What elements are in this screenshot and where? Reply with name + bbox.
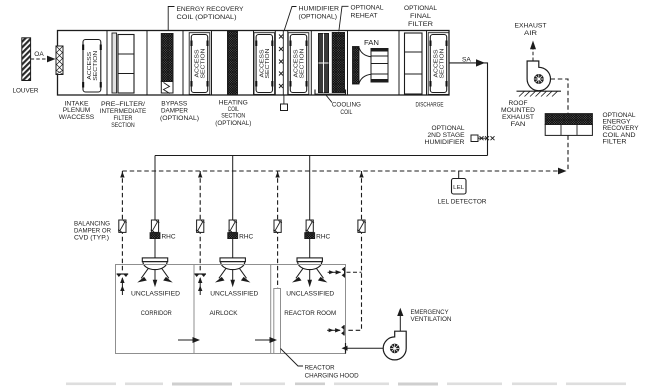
svg-text:RHC: RHC (162, 233, 176, 240)
diffuser 1 (137, 258, 173, 287)
reheat coil (332, 33, 344, 93)
svg-text:ENERGY RECOVERY: ENERGY RECOVERY (177, 6, 245, 13)
svg-text:(OPTIONAL): (OPTIONAL) (299, 14, 338, 21)
svg-text:SECTION: SECTION (221, 113, 245, 120)
svg-text:AIR: AIR (524, 30, 537, 37)
section divider (347, 31, 349, 96)
svg-text:INTERMEDIATE: INTERMEDIATE (100, 108, 147, 115)
wall register top (328, 267, 345, 277)
svg-text:REHEAT: REHEAT (351, 13, 378, 20)
section divider (182, 31, 184, 96)
section divider (274, 31, 276, 96)
wall register bottom (327, 325, 344, 335)
exhaust riser 2 (199, 171, 201, 273)
balancing damper 2 (196, 220, 205, 232)
access section 1 (82, 40, 102, 93)
svg-text:FINAL: FINAL (410, 13, 431, 20)
optional 2nd stage humidifier box (471, 135, 478, 142)
section divider (146, 31, 148, 96)
wall airlock/reactor (270, 265, 272, 354)
drain pan (315, 90, 346, 95)
bottom caption smudge (66, 383, 626, 386)
svg-text:OPTIONAL: OPTIONAL (404, 5, 437, 12)
duct fan to ERV (551, 79, 569, 114)
access section 3 (254, 33, 275, 95)
OA dashed arrow (31, 58, 48, 60)
RHC coil 2 (228, 233, 238, 239)
section divider (287, 31, 289, 96)
fan flex connector (353, 47, 360, 85)
svg-text:RHC: RHC (316, 233, 330, 240)
balancing damper 4 (357, 220, 366, 232)
balancing damper 3 (273, 220, 282, 232)
emergency vent arrow (399, 315, 401, 331)
svg-text:UNCLASSIFIED: UNCLASSIFIED (131, 290, 180, 297)
supply riser 1 (154, 156, 156, 258)
humidifier manifold (282, 31, 284, 96)
supply header (155, 155, 488, 157)
svg-text:EXHAUST: EXHAUST (502, 114, 534, 121)
svg-text:CVD (TYP.): CVD (TYP.) (74, 235, 109, 242)
svg-text:UNCLASSIFIED: UNCLASSIFIED (210, 290, 258, 297)
svg-text:CHARGING HOOD: CHARGING HOOD (305, 372, 359, 379)
AHU casing (58, 31, 450, 96)
duct ERV down (567, 135, 569, 171)
exhaust stub top register (347, 271, 362, 273)
svg-text:FILTER: FILTER (603, 138, 627, 145)
svg-text:COOLING: COOLING (332, 102, 361, 109)
svg-text:EMERGENCY: EMERGENCY (411, 309, 450, 316)
svg-text:SECTION: SECTION (111, 122, 135, 129)
door flow arrow 1 (178, 339, 194, 341)
svg-text:ROOF: ROOF (509, 100, 528, 107)
SA duct (449, 63, 488, 156)
svg-text:DAMPER: DAMPER (161, 108, 188, 115)
bypass damper (161, 82, 173, 94)
damper supply 3 (305, 220, 314, 232)
damper supply 2 (228, 220, 237, 232)
fan housing (371, 49, 388, 83)
svg-text:FILTER: FILTER (114, 115, 133, 122)
exhaust air arrow (532, 49, 534, 61)
energy recovery coil (161, 34, 173, 82)
diffuser 2 (215, 258, 251, 287)
svg-text:UNCLASSIFIED: UNCLASSIFIED (286, 290, 334, 297)
section divider (106, 31, 108, 96)
section divider (253, 31, 255, 96)
svg-text:DAMPER OR: DAMPER OR (74, 228, 111, 235)
ERV coil and filter (545, 114, 592, 125)
supply riser 3 (309, 156, 311, 258)
svg-text:(OPTIONAL): (OPTIONAL) (215, 120, 251, 127)
exhaust riser 4 (347, 171, 362, 330)
access section 5 (428, 33, 449, 95)
svg-text:REACTOR ROOM: REACTOR ROOM (284, 310, 336, 317)
diffuser 3 (292, 258, 328, 287)
svg-text:HUMIDIFIER: HUMIDIFIER (299, 6, 340, 13)
svg-text:FAN: FAN (511, 121, 526, 128)
svg-text:2ND STAGE: 2ND STAGE (428, 132, 465, 139)
svg-text:(OPTIONAL): (OPTIONAL) (160, 115, 199, 122)
svg-text:HUMIDIFIER: HUMIDIFIER (425, 139, 465, 146)
roof exhaust fan (527, 61, 550, 91)
svg-text:OPTIONAL: OPTIONAL (432, 125, 465, 132)
humidifier feed line (283, 95, 285, 104)
emergency ventilation fan (383, 331, 406, 360)
fan inlet cone (359, 48, 371, 84)
section divider (310, 31, 312, 96)
svg-text:PRE–FILTER/: PRE–FILTER/ (101, 101, 145, 108)
svg-text:LEL DETECTOR: LEL DETECTOR (438, 199, 487, 206)
svg-text:COIL (OPTIONAL): COIL (OPTIONAL) (177, 14, 237, 21)
reactor charging hood (274, 289, 281, 354)
svg-text:DISCHARGE: DISCHARGE (416, 102, 444, 109)
svg-text:OA: OA (34, 51, 44, 58)
access section 2 (189, 33, 210, 95)
svg-text:EXHAUST: EXHAUST (515, 23, 547, 30)
wall corridor/airlock (193, 265, 195, 354)
svg-text:RHC: RHC (239, 233, 253, 240)
final filter box (405, 33, 423, 94)
exhaust riser 3 (277, 171, 279, 289)
section divider (211, 31, 213, 96)
heating coil (228, 31, 238, 95)
LEL detector drop (458, 171, 460, 179)
room enclosure (116, 265, 346, 354)
RHC coil 3 (305, 233, 315, 239)
cooling coil (319, 34, 329, 93)
humidifier feed box (281, 104, 288, 111)
supply riser 2 (232, 156, 234, 258)
svg-text:OPTIONAL: OPTIONAL (351, 5, 384, 12)
section divider (426, 31, 428, 96)
svg-text:REACTOR: REACTOR (305, 365, 335, 372)
svg-text:FAN: FAN (364, 40, 379, 47)
louver (22, 38, 31, 81)
svg-text:BALANCING: BALANCING (74, 221, 110, 228)
emergency exhaust port (345, 343, 347, 354)
svg-text:CORRIDOR: CORRIDOR (141, 310, 172, 317)
pre-filter strip (112, 33, 117, 93)
svg-text:W/ACCESS: W/ACCESS (59, 114, 95, 121)
access section 4 (288, 33, 309, 95)
svg-text:SECTION: SECTION (93, 51, 99, 81)
section divider (398, 31, 400, 96)
svg-text:LEL: LEL (453, 185, 465, 191)
LEL detector box (452, 179, 467, 195)
exhaust riser 1 (121, 171, 123, 273)
intake damper (56, 46, 63, 75)
exhaust header (122, 170, 559, 172)
ceiling register 1 (117, 274, 129, 295)
label cooling coil (326, 95, 333, 103)
balancing damper 1 (118, 220, 127, 232)
intermediate filter box (118, 35, 134, 94)
svg-text:COIL: COIL (340, 109, 352, 116)
svg-text:MOUNTED: MOUNTED (501, 107, 535, 114)
svg-text:SA: SA (462, 56, 471, 63)
RHC coil 1 (150, 233, 160, 239)
reactor charging hood leader (281, 349, 304, 367)
svg-text:PLENUM: PLENUM (63, 107, 91, 114)
damper supply 1 (151, 220, 160, 232)
door flow arrow 2 (255, 339, 271, 341)
svg-text:FILTER: FILTER (408, 21, 433, 28)
ceiling register 2 (194, 274, 206, 295)
svg-text:VENTILATION: VENTILATION (411, 316, 452, 323)
roof line (517, 90, 562, 92)
svg-text:LOUVER: LOUVER (13, 87, 39, 94)
svg-text:AIRLOCK: AIRLOCK (210, 310, 238, 317)
